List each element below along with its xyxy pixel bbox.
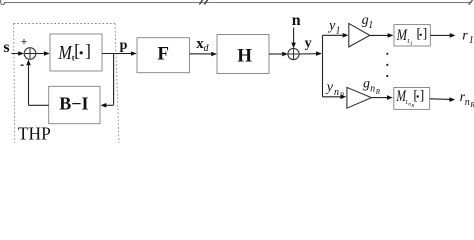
svg-text:THP: THP (18, 124, 51, 144)
svg-text:n: n (370, 84, 375, 95)
svg-text:r: r (462, 29, 468, 44)
svg-text:[: [ (74, 41, 80, 61)
svg-text:[: [ (413, 87, 418, 102)
svg-text:R: R (469, 101, 474, 109)
svg-text:R: R (339, 92, 345, 100)
svg-text:y: y (305, 36, 312, 51)
svg-text:F: F (157, 44, 169, 65)
svg-text:R: R (410, 103, 414, 108)
svg-text:1: 1 (336, 26, 341, 37)
svg-text:n: n (334, 87, 339, 98)
svg-text:1: 1 (469, 35, 474, 46)
svg-text:B−I: B−I (59, 94, 88, 114)
svg-text:M: M (58, 42, 73, 64)
svg-text:s: s (3, 39, 9, 56)
svg-text:]: ] (423, 26, 428, 41)
svg-text:[: [ (417, 26, 422, 41)
svg-text:1: 1 (368, 20, 373, 31)
svg-text:y: y (325, 80, 334, 95)
svg-text:H: H (237, 45, 252, 66)
svg-text:R: R (375, 88, 381, 96)
svg-text:n: n (465, 97, 470, 108)
svg-text:p: p (120, 38, 128, 53)
svg-text:]: ] (420, 87, 425, 102)
svg-text:g: g (363, 77, 370, 92)
svg-text:]: ] (85, 41, 91, 61)
svg-text:n: n (292, 12, 301, 29)
svg-text:1: 1 (410, 41, 413, 47)
